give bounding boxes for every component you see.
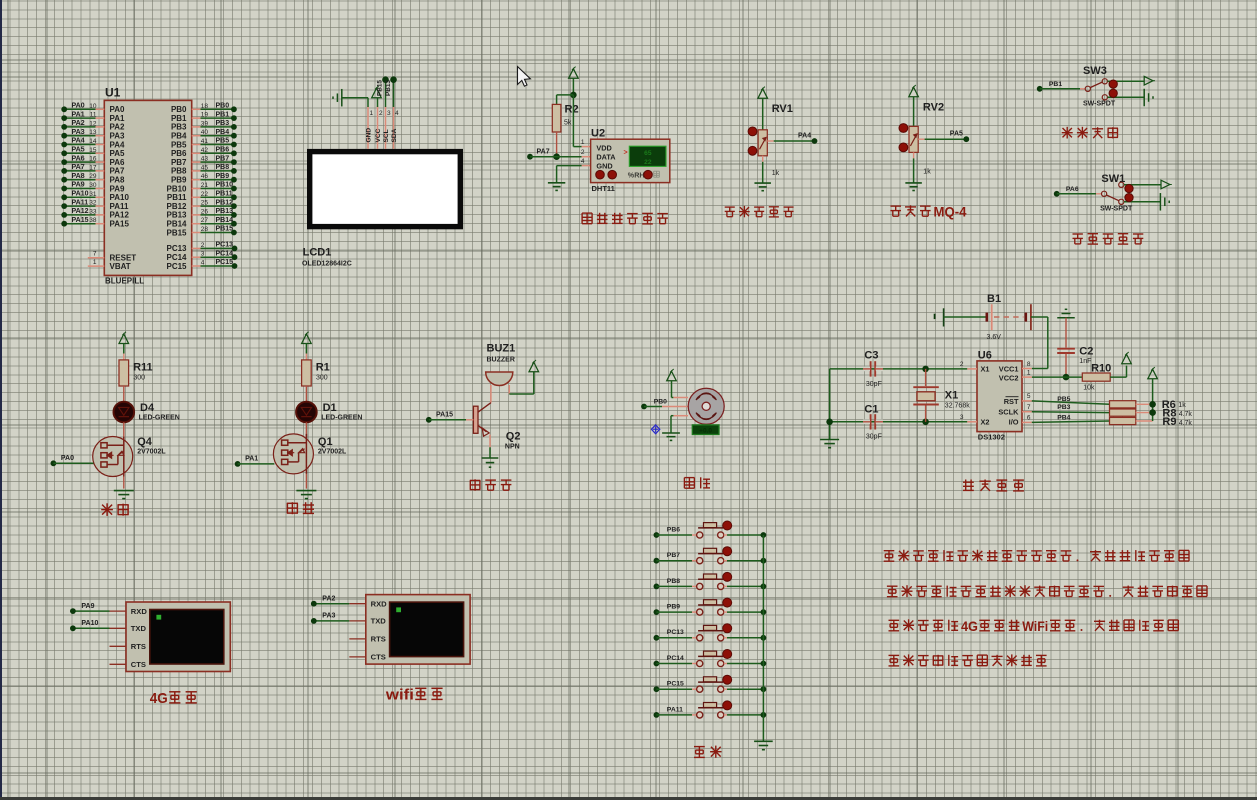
wire RV2 wiper to PA5 <box>918 131 969 142</box>
U1 pin 45 PB8 wire <box>171 164 237 176</box>
svg-text:D1: D1 <box>323 402 337 414</box>
svg-text:46: 46 <box>201 173 209 180</box>
svg-text:16: 16 <box>89 156 97 163</box>
svg-text:VCC: VCC <box>375 128 382 142</box>
svg-text:65: 65 <box>644 150 652 157</box>
svg-text:U2: U2 <box>591 128 605 140</box>
svg-text:LED-GREEN: LED-GREEN <box>321 415 362 422</box>
U1 pin 7 RESET wire <box>88 251 136 263</box>
svg-text:300: 300 <box>133 375 145 382</box>
svg-text:PA6: PA6 <box>110 158 126 167</box>
label wifi模块 <box>385 687 443 704</box>
wire RV1 bottom to ground <box>762 156 764 183</box>
svg-text:42: 42 <box>201 147 209 154</box>
window bottom edge <box>0 797 1257 800</box>
label 4G模块 <box>150 690 197 707</box>
servo motor body <box>688 388 724 424</box>
svg-text:SW3: SW3 <box>1083 65 1107 77</box>
svg-text:I/O: I/O <box>1009 417 1019 426</box>
svg-text:PB6: PB6 <box>216 147 230 154</box>
svg-text:4.7k: 4.7k <box>1179 411 1193 418</box>
svg-text:VDD: VDD <box>596 143 611 152</box>
terminal PA15 <box>426 412 474 423</box>
svg-text:PA2: PA2 <box>110 123 126 132</box>
terminal PA2 <box>311 596 349 607</box>
svg-text:SW-SPDT: SW-SPDT <box>1100 206 1133 213</box>
svg-text:C1: C1 <box>864 403 878 415</box>
U1 pin 31 PA10 wire <box>61 191 129 203</box>
svg-text:PA1: PA1 <box>245 456 258 463</box>
push button PC13 <box>654 624 767 641</box>
svg-text:PC13: PC13 <box>667 629 684 636</box>
svg-text:32.768k: 32.768k <box>945 402 970 409</box>
svg-text:4G: 4G <box>150 690 168 707</box>
U1 pin 30 PA9 wire <box>61 182 125 194</box>
svg-text:PA10: PA10 <box>72 191 89 198</box>
svg-text:R1: R1 <box>316 362 330 374</box>
svg-text:PA8: PA8 <box>110 176 126 185</box>
svg-text:15: 15 <box>89 147 97 154</box>
wire RST PB5 <box>1022 393 1110 404</box>
svg-text:PA11: PA11 <box>72 199 89 206</box>
wire Q1 to ground <box>305 474 307 489</box>
U6 pin 8 stub <box>1022 361 1032 369</box>
svg-text:PA2: PA2 <box>72 120 85 127</box>
servo pin stubs <box>662 398 688 416</box>
wire BUZ1 left pin to Q2 collector <box>478 385 491 412</box>
power (servo) <box>667 369 677 398</box>
push button PC14 <box>654 650 767 667</box>
svg-text:1k: 1k <box>772 170 780 177</box>
svg-text:PC13: PC13 <box>166 244 187 253</box>
svg-text:21: 21 <box>201 182 209 189</box>
U1 pin 39 PB3 wire <box>171 120 237 132</box>
sensor U2 DHT11 <box>591 128 670 193</box>
svg-text:3: 3 <box>201 251 205 258</box>
svg-text:2: 2 <box>201 242 205 249</box>
power (LCD1 VCC) <box>372 86 382 107</box>
svg-text:RXD: RXD <box>371 600 388 609</box>
svg-text:DHT11: DHT11 <box>592 184 615 193</box>
SW3 pole and lever <box>1085 79 1107 100</box>
svg-text:4: 4 <box>395 110 399 117</box>
svg-text:PB13: PB13 <box>385 80 392 96</box>
wire DATA pin2 <box>581 149 591 157</box>
node junction X1 bottom <box>922 419 929 426</box>
svg-text:PA0: PA0 <box>110 105 126 114</box>
U1 pin 1 VBAT wire <box>88 259 131 271</box>
svg-text:Q2: Q2 <box>506 431 521 443</box>
svg-text:19: 19 <box>201 112 209 119</box>
ground (RV1) <box>754 183 771 191</box>
svg-text:PA3: PA3 <box>72 129 85 136</box>
svg-text:BUZ1: BUZ1 <box>487 343 516 355</box>
svg-text:PA15: PA15 <box>72 217 89 224</box>
svg-text:27: 27 <box>201 217 209 224</box>
svg-text:12: 12 <box>89 120 97 127</box>
svg-text:38: 38 <box>89 217 97 224</box>
push button PA11 <box>654 701 767 718</box>
svg-text:PB0: PB0 <box>216 103 230 110</box>
wire GND pin4 to ground <box>557 158 591 183</box>
svg-text:1: 1 <box>581 139 585 146</box>
note text 仿真中没有4... <box>889 619 1179 635</box>
svg-text:DATA: DATA <box>596 153 616 162</box>
wire B1 to VCC1 <box>1031 317 1048 369</box>
svg-text:7: 7 <box>93 251 97 258</box>
window left edge <box>0 0 2 800</box>
wifi模块 pin TXD <box>349 617 386 626</box>
svg-text:VCC2: VCC2 <box>999 374 1019 383</box>
svg-text:PB3: PB3 <box>171 123 187 132</box>
svg-text:PB14: PB14 <box>216 217 234 224</box>
node junction R2/PA7/DATA <box>553 153 560 160</box>
svg-text:PA4: PA4 <box>72 138 85 145</box>
resistor R1 300 <box>302 360 330 386</box>
wire power to R2 <box>557 95 574 105</box>
U1 pin 11 PA1 wire <box>61 111 125 123</box>
ground (buttons) <box>754 740 773 742</box>
U1 pin 10 PA0 wire <box>61 103 125 115</box>
label 按键 <box>694 746 722 758</box>
U1 pin 21 PB10 wire <box>166 182 236 194</box>
power (BUZ1) <box>529 362 539 372</box>
svg-text:LCD1: LCD1 <box>303 247 332 259</box>
LCD1 GND wire to ground <box>342 98 368 107</box>
svg-text:PB1: PB1 <box>216 111 230 118</box>
terminal PA7 <box>527 149 582 160</box>
svg-text:PA9: PA9 <box>81 603 94 610</box>
blue marker (servo) <box>651 425 659 434</box>
svg-text:26: 26 <box>201 208 209 215</box>
svg-text:X1: X1 <box>981 364 990 373</box>
svg-text:11: 11 <box>90 112 97 119</box>
svg-text:>: > <box>624 150 628 157</box>
svg-text:NPN: NPN <box>505 443 520 450</box>
svg-text:PC15: PC15 <box>667 681 684 688</box>
U1 pin 46 PB9 wire <box>171 173 237 185</box>
U1 pin 32 PA11 wire <box>61 199 129 211</box>
svg-text:PA11: PA11 <box>667 706 683 713</box>
wire X2 row <box>830 421 968 423</box>
wire X1 row <box>830 368 968 370</box>
svg-text:PB5: PB5 <box>1057 396 1070 403</box>
terminal PA9 <box>70 603 110 614</box>
MOSFET Q1 2V7002L <box>273 434 347 474</box>
svg-text:13: 13 <box>89 129 97 136</box>
capacitor C2 1nF <box>1057 318 1093 377</box>
svg-text:PB3: PB3 <box>1057 404 1070 411</box>
U1 pin 38 PA15 wire <box>61 217 129 229</box>
wifi模块 pin RTS <box>349 635 385 644</box>
svg-text:PB6: PB6 <box>667 526 680 533</box>
DHT11 green LCD screen <box>624 146 667 166</box>
ground (C2 top) <box>1057 317 1075 319</box>
wire R1 to D1 <box>305 386 307 402</box>
svg-text:10k: 10k <box>1083 384 1095 391</box>
svg-text:PB13: PB13 <box>216 208 234 215</box>
left rail wire to ground <box>826 369 833 439</box>
svg-text:10: 10 <box>89 103 97 110</box>
svg-text:31: 31 <box>89 191 97 198</box>
ground (LCD1) <box>333 89 342 107</box>
wire R10 to power <box>1110 366 1126 378</box>
wire SW1 top throw to power <box>1124 184 1161 186</box>
svg-text:PA12: PA12 <box>72 208 89 215</box>
U6 pin 1 stub <box>1022 369 1032 377</box>
note text 仿真中无法获... <box>889 654 1047 666</box>
resistor R6 1k <box>1110 399 1187 411</box>
wire I/O PB4 <box>1022 414 1110 422</box>
svg-text:2: 2 <box>960 361 964 368</box>
svg-text:1: 1 <box>370 110 374 117</box>
power (R2 top) <box>569 67 579 95</box>
svg-text:PB8: PB8 <box>171 167 187 176</box>
svg-text:PC14: PC14 <box>667 655 684 662</box>
label 时钟模块 <box>963 480 1024 491</box>
svg-text:6: 6 <box>1027 415 1031 422</box>
svg-text:PA4: PA4 <box>110 140 126 149</box>
svg-text:VCC1: VCC1 <box>999 364 1019 373</box>
svg-text:C3: C3 <box>864 350 878 362</box>
svg-text:OLED12864I2C: OLED12864I2C <box>302 261 352 268</box>
RV1 adjust buttons <box>748 127 757 155</box>
U1 pin 4 PC15 wire <box>166 259 237 271</box>
svg-text:R2: R2 <box>565 104 579 116</box>
U1 pin 43 PB7 wire <box>171 155 237 167</box>
U1 pin 22 PB11 wire <box>167 191 237 203</box>
svg-text:PC15: PC15 <box>216 259 234 266</box>
LED D1 LED-GREEN <box>296 402 362 423</box>
ground (SW1) <box>1159 193 1161 211</box>
ground (Q1) <box>296 490 316 492</box>
svg-text:2: 2 <box>379 110 383 117</box>
U1 pin 27 PB14 wire <box>166 217 236 229</box>
power (R11 top) <box>119 332 129 360</box>
svg-text:1nF: 1nF <box>1079 358 1091 365</box>
svg-text:R10: R10 <box>1091 363 1111 375</box>
ground (Q4) <box>114 490 134 492</box>
terminal PB1 <box>1037 81 1085 92</box>
chip U6 DS1302 <box>977 349 1022 441</box>
U1 pin 40 PB4 wire <box>171 129 237 141</box>
ground (SW3) <box>1143 89 1145 107</box>
svg-text:3: 3 <box>960 414 964 421</box>
svg-text:PB12: PB12 <box>216 199 234 206</box>
wire D1 to Q1 <box>305 422 307 436</box>
LCD1 pin stubs and pin names <box>366 106 399 149</box>
U1 pin 12 PA2 wire <box>61 120 125 132</box>
svg-text:BLUEPILL: BLUEPILL <box>105 277 144 286</box>
SW1 toggle buttons <box>1125 184 1133 201</box>
svg-text:PB5: PB5 <box>171 140 187 149</box>
svg-text:SCL: SCL <box>383 129 390 142</box>
svg-text:R9: R9 <box>1162 416 1176 428</box>
label 温湿度传感器 <box>582 213 668 224</box>
svg-text:4G: 4G <box>961 619 978 635</box>
svg-text:29: 29 <box>89 173 97 180</box>
svg-text:PA10: PA10 <box>110 193 130 202</box>
wire servo pin3 to ground <box>671 416 673 433</box>
svg-text:RTS: RTS <box>131 642 146 651</box>
U1 pin 42 PB6 wire <box>171 147 237 159</box>
wire Q2 emitter to ground <box>489 447 491 457</box>
capacitor C1 30pF <box>863 403 883 440</box>
svg-text:PB11: PB11 <box>167 193 187 202</box>
svg-text:PA8: PA8 <box>72 173 85 180</box>
svg-text:18: 18 <box>201 103 209 110</box>
svg-text:4: 4 <box>201 260 205 267</box>
potentiometer RV1 1k <box>758 103 793 177</box>
svg-text:PB1: PB1 <box>1049 81 1062 88</box>
wire SW1 bottom throw to ground <box>1124 201 1161 203</box>
power (pullup rail) <box>1148 369 1158 379</box>
transistor Q2 NPN <box>473 406 520 450</box>
battery B1 3.6V <box>935 293 1031 341</box>
power (SW1) <box>1161 180 1170 189</box>
svg-text:PB14: PB14 <box>166 220 187 229</box>
svg-text:PA0: PA0 <box>72 103 85 110</box>
4G模块 pin RXD <box>110 607 148 616</box>
svg-text:PA5: PA5 <box>72 147 85 154</box>
resistor R10 10k <box>1082 363 1111 392</box>
svg-text:PA4: PA4 <box>798 133 811 140</box>
U1 pin 25 PB12 wire <box>166 199 236 211</box>
terminal PA1 <box>235 456 275 467</box>
svg-text:300: 300 <box>316 375 328 382</box>
svg-text:41: 41 <box>201 138 209 145</box>
svg-text:4: 4 <box>581 158 585 165</box>
wifi模块 pin CTS <box>349 653 385 662</box>
wire RV2 bottom to ground <box>913 152 915 183</box>
svg-text:PA0: PA0 <box>61 455 74 462</box>
svg-text:PA15: PA15 <box>110 220 130 229</box>
svg-text:PB3: PB3 <box>216 120 230 127</box>
module 4G模块 <box>126 602 230 672</box>
U1 pin 2 PC13 wire <box>166 242 237 254</box>
wire R2 to DATA <box>556 132 558 157</box>
svg-text:CTS: CTS <box>371 653 386 662</box>
svg-text:PB7: PB7 <box>667 552 680 559</box>
svg-text:1k: 1k <box>923 169 931 176</box>
svg-text:RXD: RXD <box>131 607 148 616</box>
label 水泵 <box>101 503 129 516</box>
svg-text:22: 22 <box>201 191 209 198</box>
wire VDD pin1 <box>573 95 590 147</box>
label 舵机 <box>684 477 710 488</box>
svg-text:PB1: PB1 <box>171 114 187 123</box>
U1 pin 18 PB0 wire <box>171 103 237 115</box>
svg-text:4.7k: 4.7k <box>1179 420 1193 427</box>
svg-text:PB15: PB15 <box>216 226 234 233</box>
svg-text:PB9: PB9 <box>216 173 230 180</box>
svg-text:X1: X1 <box>945 390 958 402</box>
svg-text:32: 32 <box>89 200 97 207</box>
svg-text:%RH: %RH <box>628 171 645 180</box>
label 人体红外 <box>1062 127 1118 139</box>
wire SW3 bottom throw to ground <box>1107 96 1144 98</box>
push button PB9 <box>654 598 767 615</box>
svg-text:PA9: PA9 <box>72 182 85 189</box>
wire D4 to Q4 <box>123 422 125 436</box>
svg-text:5: 5 <box>1027 393 1031 400</box>
label 天然气MQ-4 <box>890 205 966 221</box>
4G模块 pin CTS <box>110 660 146 669</box>
U1 pin 29 PA8 wire <box>61 173 125 185</box>
svg-text:RV2: RV2 <box>923 102 944 114</box>
svg-text:PB10: PB10 <box>216 182 234 189</box>
node junction R2/VDD <box>570 92 577 99</box>
svg-text:DS1302: DS1302 <box>978 432 1005 441</box>
svg-text:SDA: SDA <box>391 128 398 142</box>
svg-text:7: 7 <box>1027 404 1031 411</box>
svg-text:45: 45 <box>201 164 209 171</box>
terminal PA0 <box>51 455 94 466</box>
svg-text:PA15: PA15 <box>436 412 453 419</box>
svg-text:33: 33 <box>89 208 97 215</box>
display LCD1 OLED12864I2C <box>302 149 463 268</box>
power (SW3) <box>1144 76 1153 85</box>
svg-text:X2: X2 <box>981 417 990 426</box>
svg-text:PA5: PA5 <box>950 131 963 138</box>
svg-text:1: 1 <box>1027 369 1031 376</box>
svg-text:PB4: PB4 <box>171 132 187 141</box>
svg-text:PB11: PB11 <box>216 191 233 198</box>
U1 pin 26 PB13 wire <box>166 208 236 220</box>
wire R11 to D4 <box>123 386 125 402</box>
svg-text:PB12: PB12 <box>166 202 187 211</box>
svg-text:SW-SPDT: SW-SPDT <box>1083 101 1116 108</box>
resistor R2 5k <box>552 104 578 133</box>
svg-text:1k: 1k <box>1178 402 1186 409</box>
wire SDA to PB13 node <box>385 76 397 107</box>
push button PC15 <box>654 675 767 692</box>
svg-text:B1: B1 <box>987 293 1001 305</box>
svg-text:Q4: Q4 <box>137 436 153 448</box>
microcontroller U1 BLUEPILL <box>104 86 191 286</box>
svg-text:RST: RST <box>1004 397 1019 406</box>
svg-text:3.6V: 3.6V <box>987 334 1002 341</box>
svg-text:PA7: PA7 <box>72 164 85 171</box>
U1 pin 13 PA3 wire <box>61 129 125 141</box>
resistor R9 4.7k <box>1110 416 1193 428</box>
svg-text:PB5: PB5 <box>216 138 230 145</box>
servo angle display <box>692 425 719 435</box>
crystal X1 32.768k <box>913 369 970 422</box>
svg-text:PB13: PB13 <box>166 211 187 220</box>
svg-text:PB4: PB4 <box>216 129 230 136</box>
resistor R8 4.7k <box>1110 408 1193 420</box>
ground (RV2) <box>905 183 922 191</box>
svg-text:PB15: PB15 <box>377 80 384 96</box>
svg-text:PC14: PC14 <box>166 253 187 262</box>
wire BUZ1 right pin to power <box>509 372 534 394</box>
svg-text:PB0: PB0 <box>171 105 187 114</box>
svg-text:30pF: 30pF <box>866 381 882 388</box>
terminal PA3 <box>311 613 349 624</box>
U6 pin 3 stub <box>960 414 977 422</box>
svg-text:PA11: PA11 <box>110 202 130 211</box>
svg-text:Q1: Q1 <box>318 436 333 448</box>
svg-text:PA3: PA3 <box>322 613 335 620</box>
svg-text:PB9: PB9 <box>667 604 680 611</box>
ground (servo) <box>662 432 680 434</box>
label 风扇 <box>287 502 314 514</box>
U1 pin 15 PA5 wire <box>61 147 125 159</box>
svg-text:PA6: PA6 <box>72 155 85 162</box>
svg-text:U6: U6 <box>978 349 992 361</box>
svg-text:RTS: RTS <box>371 635 386 644</box>
